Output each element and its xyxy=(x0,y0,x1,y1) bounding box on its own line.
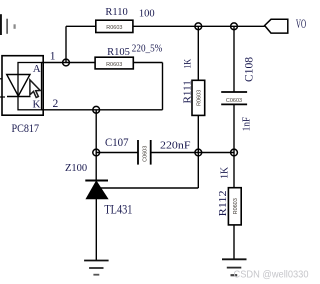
svg-text:1: 1 xyxy=(50,51,56,63)
junction top rail x C108 xyxy=(231,23,238,30)
wire R111 bottom lead xyxy=(197,115,199,152)
wire R112 bottom lead to ground xyxy=(233,225,235,259)
wire C108 top lead xyxy=(233,26,235,92)
svg-text:R112: R112 xyxy=(217,190,229,216)
wire TL431 anode to ground xyxy=(95,199,97,261)
wire C107 row left xyxy=(96,152,138,154)
svg-text:R0603: R0603 xyxy=(106,25,122,31)
wire C107 row right xyxy=(151,152,234,154)
ground under TL431 xyxy=(84,261,109,275)
svg-text:C0603: C0603 xyxy=(226,98,242,104)
wire R112 top lead xyxy=(233,153,235,188)
svg-text:C108: C108 xyxy=(243,57,255,82)
wire vertical junction A up to R110 row xyxy=(65,26,67,62)
svg-text:C107: C107 xyxy=(105,137,129,149)
optocoupler U PC817 body box xyxy=(2,56,43,115)
wire pin1 to junction A xyxy=(42,62,67,64)
wire pin2 row xyxy=(42,109,163,111)
capacitor C107 xyxy=(138,140,151,165)
wire C108 bottom lead xyxy=(233,104,235,152)
junction top rail x R111 xyxy=(195,23,202,30)
svg-text:1nF: 1nF xyxy=(240,117,252,131)
resistor R111 xyxy=(192,80,205,115)
junction C107 row x TL431 branch xyxy=(93,149,100,156)
wire junction A to R105 xyxy=(66,62,95,64)
connector VO xyxy=(265,19,288,33)
LED diode inside PC817 xyxy=(0,75,31,98)
svg-text:R0603: R0603 xyxy=(233,198,239,214)
mouse cursor xyxy=(30,80,40,98)
wire vertical drop to pin2 row xyxy=(162,63,164,110)
junction C107 row x R111 xyxy=(195,149,202,156)
svg-text:R111: R111 xyxy=(183,80,194,103)
svg-text:CSDN @well0330: CSDN @well0330 xyxy=(234,270,309,281)
svg-text:K: K xyxy=(33,99,41,111)
svg-text:C0603: C0603 xyxy=(142,146,148,162)
wire R111 top lead xyxy=(197,26,199,80)
wire ref row to TL431 xyxy=(100,187,198,189)
resistor R105 xyxy=(95,57,133,69)
svg-text:R0603: R0603 xyxy=(106,62,122,68)
junction A (pin1 / R110 / R105) xyxy=(63,59,70,66)
svg-text:TL431: TL431 xyxy=(104,203,132,217)
svg-text:PC817: PC817 xyxy=(12,123,40,135)
svg-text:A: A xyxy=(33,63,41,75)
svg-text:VO: VO xyxy=(296,17,306,31)
ground under R112 xyxy=(222,259,247,275)
svg-text:2: 2 xyxy=(53,98,59,110)
wire R105 right lead xyxy=(133,62,162,64)
svg-text:1K: 1K xyxy=(219,167,230,179)
wire top rail R110 to VO xyxy=(133,25,265,27)
wire R111 junction down to ref row xyxy=(197,153,199,189)
PC817 LED inner sub-box xyxy=(18,63,42,110)
junction pin2 row x TL431 branch xyxy=(93,106,100,113)
svg-text:R0603: R0603 xyxy=(196,90,202,106)
junction C107 row x C108/R112 xyxy=(231,149,238,156)
svg-text:100: 100 xyxy=(139,9,155,20)
svg-text:Z100: Z100 xyxy=(65,163,87,174)
cropped element at top-left image edge xyxy=(0,14,16,35)
svg-text:R105: R105 xyxy=(107,47,130,58)
wire vertical pin2 row down to TL431 xyxy=(95,110,97,181)
resistor R110 xyxy=(96,20,133,32)
svg-text:R110: R110 xyxy=(105,7,127,18)
svg-text:220_5%: 220_5% xyxy=(132,44,163,55)
svg-text:220nF: 220nF xyxy=(160,140,191,152)
svg-text:1K: 1K xyxy=(184,59,194,69)
wire R110 left lead xyxy=(66,25,96,27)
capacitor C108 xyxy=(221,92,247,104)
zener TL431 Z100 xyxy=(85,181,108,199)
resistor R112 xyxy=(228,188,241,225)
